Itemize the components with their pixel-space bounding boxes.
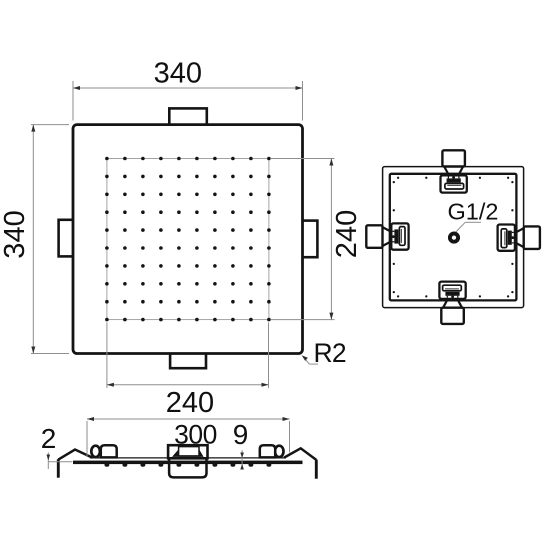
svg-text:R2: R2: [314, 338, 346, 368]
right mounting tab: [302, 221, 317, 258]
dimension 240 bottom: [107, 323, 269, 420]
dimension 9: [233, 419, 249, 470]
side right clip ring: [275, 446, 284, 457]
side left clip body: [101, 445, 117, 457]
bottom mounting tab: [170, 353, 206, 369]
mounting bottom clip of back view: [439, 282, 465, 324]
plate top line: [90, 457, 286, 459]
left end cap: [57, 459, 60, 478]
corner radius label R2 with leader: [302, 338, 346, 368]
mounting right clip of back view: [498, 225, 540, 251]
svg-text:9: 9: [233, 419, 249, 450]
dimension 240 right: [271, 159, 363, 320]
back inner plate: [390, 174, 517, 301]
face plate band: [73, 461, 303, 465]
right rim lip: [284, 448, 316, 460]
svg-text:2: 2: [41, 423, 57, 454]
dimension 300: [87, 417, 290, 457]
nozzle bumps: [105, 464, 272, 467]
side right clip body: [260, 445, 275, 457]
inlet housing upper box: [168, 445, 207, 458]
mounting left clip of back view: [366, 223, 408, 249]
screw dots: [393, 177, 514, 298]
svg-text:240: 240: [166, 387, 214, 419]
label G1/2 with leader: [448, 198, 499, 232]
back outer plate: [383, 167, 524, 308]
dimension 2: [41, 423, 73, 469]
svg-text:340: 340: [0, 210, 31, 258]
svg-text:G1/2: G1/2: [448, 198, 499, 224]
water inlet G1/2: [450, 234, 458, 242]
shower head face plate: [73, 125, 303, 354]
top mounting tab: [169, 108, 207, 126]
svg-text:240: 240: [331, 210, 363, 258]
svg-text:300: 300: [174, 420, 217, 450]
inlet housing lower U: [169, 459, 206, 477]
side left clip ring: [91, 446, 100, 457]
svg-text:340: 340: [154, 58, 202, 90]
housing inner window: [179, 447, 199, 456]
mounting top clip of back view: [441, 150, 467, 192]
left rim lip: [58, 450, 92, 460]
left mounting tab: [59, 220, 74, 257]
dimension 340 top: [73, 58, 303, 121]
housing window sill: [172, 450, 204, 457]
nozzle dots 10x10: [105, 157, 271, 322]
dimension 340 left: [0, 125, 69, 354]
nozzle field border: [107, 159, 269, 320]
right end cap: [315, 460, 318, 479]
